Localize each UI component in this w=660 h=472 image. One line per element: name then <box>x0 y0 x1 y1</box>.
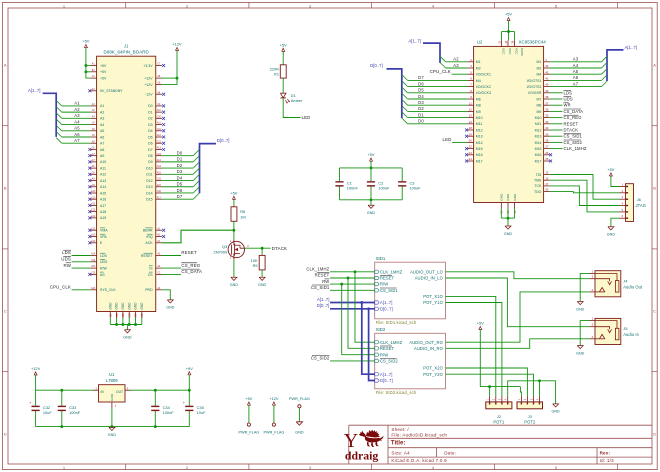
wire J6 pin6 to ground <box>611 218 620 227</box>
svg-text:A3: A3 <box>100 117 104 121</box>
capacitor C32 10uF <box>29 390 52 426</box>
svg-text:A15: A15 <box>157 171 162 174</box>
svg-text:+5V: +5V <box>100 76 107 80</box>
svg-text:D9: D9 <box>148 160 153 164</box>
regulator U1 L7809 body <box>93 372 132 407</box>
svg-text:C11: C11 <box>91 210 96 212</box>
svg-text:M16: M16 <box>535 153 542 157</box>
wire POT_X1O to J2 pin2 <box>446 296 496 396</box>
svg-text:A10: A10 <box>100 160 106 164</box>
capacitor C2 100nF <box>367 168 390 200</box>
svg-text:A17: A17 <box>100 204 106 208</box>
wire +5V to J2 J3 pin1 <box>480 330 521 396</box>
svg-text:C: C <box>4 308 7 313</box>
svg-text:42: 42 <box>545 77 549 81</box>
svg-text:+5V: +5V <box>82 39 89 44</box>
svg-text:A18: A18 <box>100 210 106 214</box>
wire AUDIO_IN_RO SID2 to J5 pin2 <box>446 339 590 349</box>
svg-text:A10: A10 <box>91 190 96 193</box>
svg-text:CS_REG: CS_REG <box>181 263 200 268</box>
svg-text:Audio Out: Audio Out <box>623 284 643 289</box>
svg-text:VPA: VPA <box>100 235 107 239</box>
label LED at U2 and wire <box>443 137 468 142</box>
svg-text:GND: GND <box>108 433 117 437</box>
svg-text:GND: GND <box>504 232 513 236</box>
svg-text:100nF: 100nF <box>69 410 81 415</box>
svg-text:39: 39 <box>545 89 549 93</box>
svg-text:A: A <box>4 62 7 67</box>
svg-text:C15: C15 <box>157 179 162 181</box>
J1 bottom GND pins <box>108 302 143 318</box>
power +12V right of J1 <box>172 42 182 51</box>
svg-text:+5V: +5V <box>280 42 287 47</box>
connector J1 D68K_64PIN_BOARD body <box>97 43 156 311</box>
svg-text:LDS: LDS <box>100 254 107 258</box>
svg-text:I/O/GSR: I/O/GSR <box>528 91 542 95</box>
svg-text:AUDIO_OUT_LO: AUDIO_OUT_LO <box>410 269 443 274</box>
svg-text:A12: A12 <box>100 173 106 177</box>
svg-text:A7: A7 <box>74 138 80 143</box>
svg-text:D2: D2 <box>148 117 153 121</box>
svg-text:Amber: Amber <box>291 98 303 103</box>
svg-text:D68K_64PIN_BOARD: D68K_64PIN_BOARD <box>104 49 149 54</box>
wire J5 sleeve to ground <box>580 321 589 346</box>
svg-text:D10: D10 <box>146 166 152 170</box>
bus D[0..7] into U2 <box>387 69 402 118</box>
SID1 left sheet pins <box>375 269 403 311</box>
svg-text:28: 28 <box>545 139 549 143</box>
connector J3 POT2 <box>517 396 543 425</box>
svg-text:M9: M9 <box>537 110 542 114</box>
wire J4 sleeve to ground <box>580 274 589 302</box>
svg-text:CLK_1MHZ: CLK_1MHZ <box>306 266 329 271</box>
logo Y Ddraig <box>344 430 384 463</box>
svg-text:A5: A5 <box>74 126 80 131</box>
svg-text:A9: A9 <box>100 154 104 158</box>
svg-text:M12: M12 <box>476 128 483 132</box>
power flag +12V <box>263 396 284 434</box>
svg-text:POT_X2O: POT_X2O <box>423 366 443 371</box>
svg-text:D12: D12 <box>146 179 152 183</box>
svg-text:A15: A15 <box>100 191 106 195</box>
transistor Q3 2N7000 <box>214 239 250 260</box>
wire Q3 source to ground <box>233 259 235 277</box>
svg-text:KiCad E.D.A. kicad 7.0.9: KiCad E.D.A. kicad 7.0.9 <box>391 458 447 463</box>
svg-text:A5: A5 <box>573 69 579 74</box>
svg-text:PRD: PRD <box>145 288 153 292</box>
svg-text:POT_Y2O: POT_Y2O <box>423 372 443 377</box>
svg-text:XC9536PC44: XC9536PC44 <box>519 40 547 45</box>
svg-text:AUDIO_IN_RO: AUDIO_IN_RO <box>414 346 443 351</box>
LED D1 Amber <box>280 93 303 103</box>
svg-text:L7809: L7809 <box>106 378 119 383</box>
svg-text:D0: D0 <box>148 104 153 108</box>
svg-text:40: 40 <box>545 83 549 87</box>
svg-text:A5: A5 <box>100 129 104 133</box>
svg-text:B: B <box>4 185 7 190</box>
svg-text:-12V: -12V <box>145 93 153 97</box>
svg-text:GND: GND <box>513 193 517 201</box>
svg-text:CS_SID1: CS_SID1 <box>380 288 398 293</box>
svg-text:A16: A16 <box>157 184 162 187</box>
capacitor C3 100nF <box>398 168 421 200</box>
svg-text:M15: M15 <box>476 147 483 151</box>
svg-text:RESET: RESET <box>564 121 579 126</box>
wire POT_X2O to J3 pin2 <box>446 368 528 396</box>
wire AUDIO_IN_LO SID1 to J5 pin3 <box>446 278 590 327</box>
wire +5V rail to caps <box>340 161 403 169</box>
svg-text:D15: D15 <box>146 198 152 202</box>
ground below J4 <box>576 302 585 312</box>
svg-text:M8: M8 <box>476 104 481 108</box>
svg-text:TCK: TCK <box>534 184 542 188</box>
svg-text:D8: D8 <box>148 154 153 158</box>
title block text <box>391 427 614 463</box>
svg-text:20: 20 <box>469 139 473 143</box>
wire junction to R9 <box>261 248 263 255</box>
svg-text:DTACK: DTACK <box>564 128 579 133</box>
svg-text:D5: D5 <box>148 135 153 139</box>
svg-text:A4: A4 <box>100 123 104 127</box>
svg-text:10uF: 10uF <box>197 410 206 415</box>
wires A1-A7 to J1 with bus entries <box>56 100 90 143</box>
svg-text:VCC: VCC <box>508 48 512 55</box>
ground at pots <box>551 404 560 414</box>
svg-text:CS_SID2: CS_SID2 <box>564 140 583 145</box>
U2 bottom GND pins <box>500 193 517 226</box>
svg-text:POT_X1O: POT_X1O <box>423 294 443 299</box>
svg-text:D1: D1 <box>418 112 424 117</box>
svg-text:RW: RW <box>63 263 71 268</box>
svg-text:ddraig: ddraig <box>345 449 379 463</box>
wire ACK to Q3 drain node <box>162 230 234 243</box>
svg-text:+5V: +5V <box>100 64 107 68</box>
U2 right signal labels <box>550 90 587 151</box>
svg-text:A6: A6 <box>74 132 80 137</box>
svg-text:C13: C13 <box>157 154 162 156</box>
svg-text:GND: GND <box>367 211 376 215</box>
svg-text:+5V: +5V <box>607 167 614 172</box>
svg-text:M6: M6 <box>476 97 481 101</box>
svg-text:AUDIO_OUT_RO: AUDIO_OUT_RO <box>409 340 443 345</box>
ground at PRD <box>166 300 175 310</box>
svg-text:Sheet: /: Sheet: / <box>391 427 409 432</box>
svg-text:D3: D3 <box>418 100 424 105</box>
svg-text:+5V: +5V <box>230 190 237 195</box>
svg-text:CS_DATA: CS_DATA <box>181 269 202 274</box>
svg-text:D14: D14 <box>146 191 152 195</box>
svg-text:Size: A4: Size: A4 <box>391 451 410 456</box>
label RESET and wire at J1 <box>162 250 197 255</box>
wire +5V to R1 <box>282 51 284 64</box>
svg-text:+12V: +12V <box>144 76 153 80</box>
svg-text:R1: R1 <box>274 72 279 77</box>
svg-text:M1: M1 <box>537 60 542 64</box>
svg-text:B: B <box>653 185 656 190</box>
svg-text:A14: A14 <box>91 253 96 256</box>
svg-text:M9: M9 <box>476 110 481 114</box>
svg-text:+12V: +12V <box>269 396 279 401</box>
svg-text:R/W: R/W <box>380 282 388 287</box>
svg-text:A12: A12 <box>91 215 96 218</box>
svg-text:GND: GND <box>230 283 239 287</box>
svg-text:GND: GND <box>110 393 114 401</box>
svg-text:File: AudioSID.kicad_sch: File: AudioSID.kicad_sch <box>391 433 447 438</box>
svg-text:JTAG: JTAG <box>636 203 647 208</box>
svg-text:I/O/GTS1: I/O/GTS1 <box>527 79 542 83</box>
svg-text:CS_SID1: CS_SID1 <box>564 134 583 139</box>
wire +5V to J1 supply pins <box>84 48 90 79</box>
svg-text:25: 25 <box>545 157 549 161</box>
svg-text:A13: A13 <box>157 147 162 150</box>
wire R9 to ground <box>261 270 263 277</box>
svg-text:11: 11 <box>469 101 472 105</box>
svg-text:GND: GND <box>295 430 304 434</box>
svg-text:+3.3V: +3.3V <box>143 64 153 68</box>
svg-text:17: 17 <box>545 182 549 186</box>
svg-text:2N7000: 2N7000 <box>214 249 228 254</box>
svg-text:RESET: RESET <box>380 276 395 281</box>
svg-text:AUDIO_IN_LO: AUDIO_IN_LO <box>415 276 443 281</box>
svg-text:D2: D2 <box>177 163 183 168</box>
svg-text:U2: U2 <box>477 40 483 45</box>
svg-text:GND: GND <box>551 410 560 414</box>
svg-text:43: 43 <box>545 70 549 74</box>
svg-text:D4: D4 <box>418 94 424 99</box>
power +5V above J1 <box>82 39 89 48</box>
svg-text:D7: D7 <box>148 148 153 152</box>
svg-text:C15: C15 <box>91 273 96 275</box>
svg-text:VMA: VMA <box>100 229 108 233</box>
svg-text:A2: A2 <box>453 57 459 62</box>
svg-text:M13: M13 <box>535 135 542 139</box>
svg-text:D5: D5 <box>418 88 424 93</box>
ground below Q3 <box>230 277 239 287</box>
svg-text:A2: A2 <box>74 107 80 112</box>
svg-text:D: D <box>653 431 656 436</box>
svg-text:TMS: TMS <box>534 179 542 183</box>
svg-text:C12: C12 <box>157 141 162 143</box>
svg-text:UDS: UDS <box>61 257 71 262</box>
svg-text:GND: GND <box>607 233 616 237</box>
svg-text:C12: C12 <box>91 228 96 230</box>
svg-text:A14: A14 <box>157 159 162 162</box>
svg-text:14: 14 <box>469 120 473 124</box>
svg-text:D11: D11 <box>146 173 152 177</box>
svg-text:PWR_FLAG: PWR_FLAG <box>289 397 310 401</box>
capacitor C35 10uF <box>183 390 206 426</box>
svg-text:A15: A15 <box>91 265 96 268</box>
wires D0-D7 from J1 D8-D15 with bus entries <box>162 149 200 199</box>
label RW and wire <box>63 263 90 268</box>
audio jack J5 Audio In <box>590 317 640 345</box>
svg-text:A[1..7]: A[1..7] <box>28 88 40 93</box>
bus label A[1..7] at SID1 <box>317 297 375 303</box>
svg-text:M2: M2 <box>476 66 481 70</box>
wire caps bottom rail <box>340 198 403 205</box>
svg-text:File: SID2.kicad_sch: File: SID2.kicad_sch <box>376 390 417 395</box>
wire +12V to J1 pins <box>162 51 179 85</box>
svg-text:C16: C16 <box>157 191 162 193</box>
svg-text:R/W: R/W <box>100 267 108 271</box>
svg-text:SID2: SID2 <box>376 327 386 332</box>
svg-text:C14: C14 <box>91 260 96 262</box>
svg-text:A[1..7]: A[1..7] <box>408 39 420 44</box>
svg-text:M15: M15 <box>535 147 542 151</box>
svg-text:M16: M16 <box>476 153 483 157</box>
label CPU_CLK at U2 and wire <box>430 69 468 74</box>
svg-text:I/O/GCK3: I/O/GCK3 <box>476 91 491 95</box>
svg-text:R9: R9 <box>253 263 258 268</box>
svg-text:GND: GND <box>115 302 119 310</box>
svg-text:27: 27 <box>545 145 549 149</box>
svg-text:D3: D3 <box>177 169 183 174</box>
svg-text:GND: GND <box>134 302 138 310</box>
svg-text:Q3: Q3 <box>222 244 227 249</box>
CPLD U2 XC9536PC44 body <box>474 40 547 203</box>
svg-text:D7: D7 <box>177 194 183 199</box>
bus label D[0..7] at SID1 <box>317 303 375 309</box>
svg-text:D6: D6 <box>148 142 153 146</box>
svg-text:IRQ: IRQ <box>146 235 153 239</box>
svg-text:U1: U1 <box>109 372 115 377</box>
svg-text:M14: M14 <box>476 141 483 145</box>
svg-text:I/O/GCK2: I/O/GCK2 <box>476 85 491 89</box>
svg-text:M17: M17 <box>535 159 542 163</box>
svg-text:RESET: RESET <box>141 254 154 258</box>
svg-text:A16: A16 <box>91 287 96 290</box>
power +9V right rail <box>186 366 193 375</box>
svg-text:13: 13 <box>469 114 473 118</box>
svg-text:A13: A13 <box>100 179 106 183</box>
svg-text:A2: A2 <box>100 111 104 115</box>
svg-text:D[0..7]: D[0..7] <box>317 303 330 308</box>
svg-text:M11: M11 <box>476 122 483 126</box>
svg-text:Rev:: Rev: <box>600 451 611 456</box>
svg-text:Title:: Title: <box>391 440 406 447</box>
svg-text:SYS_CLK: SYS_CLK <box>100 288 116 292</box>
wires A2 A3 into U2 <box>440 56 468 68</box>
svg-text:A4: A4 <box>74 119 80 124</box>
svg-text:A3: A3 <box>573 57 579 62</box>
power +5V above R6 <box>230 190 237 199</box>
U2 left pins <box>465 58 491 163</box>
wire POT_Y2O to J3 pin3 <box>446 374 534 396</box>
svg-text:A19: A19 <box>100 216 106 220</box>
U2 right pins <box>527 58 552 194</box>
svg-text:RESET: RESET <box>315 273 330 278</box>
svg-text:D0: D0 <box>418 119 424 124</box>
ground below U1 <box>108 427 117 437</box>
svg-text:C13: C13 <box>91 241 96 243</box>
capacitor C1 100nF <box>335 168 358 200</box>
svg-text:C11: C11 <box>157 129 162 131</box>
svg-text:GND: GND <box>506 193 510 201</box>
svg-text:A16: A16 <box>100 198 106 202</box>
svg-text:A10: A10 <box>157 109 162 112</box>
svg-text:GND: GND <box>140 302 144 310</box>
svg-text:D4: D4 <box>148 129 153 133</box>
wires D7-D0 into U2 <box>402 75 468 124</box>
svg-text:A6: A6 <box>573 75 579 80</box>
svg-text:M7: M7 <box>537 97 542 101</box>
svg-text:GND: GND <box>576 351 585 355</box>
svg-text:A8: A8 <box>100 148 104 152</box>
svg-text:D0: D0 <box>177 151 183 156</box>
svg-text:UDS: UDS <box>100 260 108 264</box>
svg-text:+5V: +5V <box>100 70 107 74</box>
svg-text:22: 22 <box>469 145 473 149</box>
svg-text:100nF: 100nF <box>163 410 175 415</box>
power +12V above C32 <box>31 366 41 375</box>
label CS_SID2 and wire <box>311 356 375 361</box>
svg-text:+12V: +12V <box>144 83 153 87</box>
wire AUDIO_OUT_LO SID1 to J4 pin3 <box>446 272 590 279</box>
svg-text:19: 19 <box>469 132 473 136</box>
svg-text:SID1: SID1 <box>376 256 386 261</box>
svg-text:100nF: 100nF <box>378 186 390 191</box>
resistor R6 1M <box>231 207 246 222</box>
svg-text:M14: M14 <box>535 141 542 145</box>
resistor R1 220R <box>270 65 287 78</box>
svg-text:A7: A7 <box>100 142 104 146</box>
svg-text:D3: D3 <box>148 123 153 127</box>
svg-text:A: A <box>653 62 656 67</box>
svg-text:D[0..7]: D[0..7] <box>380 378 393 383</box>
svg-text:CLK_1MHZ: CLK_1MHZ <box>564 146 587 151</box>
J1 left pins <box>88 63 123 293</box>
svg-text:A12: A12 <box>157 134 162 137</box>
svg-text:PWR_FLAG: PWR_FLAG <box>238 430 259 434</box>
SID2 left sheet pins <box>375 340 403 383</box>
svg-text:GND: GND <box>108 302 112 310</box>
svg-text:M11: M11 <box>535 122 542 126</box>
svg-text:M1: M1 <box>476 60 481 64</box>
ground below R9 <box>258 277 267 287</box>
svg-text:Audio In: Audio In <box>623 332 639 337</box>
svg-text:D7: D7 <box>418 75 424 80</box>
svg-text:TDI: TDI <box>536 173 542 177</box>
svg-text:M2: M2 <box>537 66 542 70</box>
svg-text:23: 23 <box>469 151 473 155</box>
svg-text:D: D <box>4 431 7 436</box>
bus A[1..7] from U2 right <box>607 50 624 81</box>
svg-text:A[1..7]: A[1..7] <box>625 45 637 50</box>
svg-text:D[0..7]: D[0..7] <box>380 306 393 311</box>
wire +5V to U2 VCC pins <box>502 21 515 41</box>
J1 right pins <box>141 64 165 293</box>
svg-text:WR: WR <box>564 103 571 108</box>
svg-text:CS_SID1: CS_SID1 <box>311 285 330 290</box>
wire +5V to J6 pin1 <box>611 176 620 187</box>
svg-text:R/W: R/W <box>380 352 388 357</box>
svg-text:C10: C10 <box>91 197 96 199</box>
svg-text:I/O/GTS2: I/O/GTS2 <box>527 85 542 89</box>
wire R6 to Q3 drain, junction <box>232 221 235 240</box>
svg-text:30: 30 <box>545 188 549 192</box>
svg-text:+9V: +9V <box>186 366 193 371</box>
wire J2 J3 pin4 to ground <box>508 379 556 404</box>
hierarchical sheet SID2 <box>375 327 446 395</box>
svg-text:LDS: LDS <box>564 90 573 95</box>
svg-text:A7: A7 <box>573 81 579 86</box>
wire +5V to R6 <box>233 199 235 206</box>
svg-text:GND: GND <box>576 307 585 311</box>
audio jack J4 Audio Out <box>590 270 644 297</box>
SID2 right sheet pins <box>409 340 443 377</box>
svg-text:38: 38 <box>545 95 549 99</box>
svg-text:C14: C14 <box>157 166 162 168</box>
